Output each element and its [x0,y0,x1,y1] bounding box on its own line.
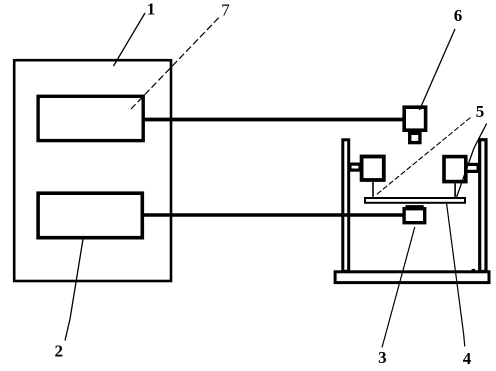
left slide box 5 [362,157,384,181]
leader line for 3 [382,227,415,348]
svg-text:1: 1 [147,0,156,19]
svg-text:3: 3 [378,348,387,367]
inner box 7 [38,96,143,140]
left post [343,140,349,271]
left link bracket [350,164,360,170]
right probe drop line [454,183,456,198]
svg-text:6: 6 [454,6,463,25]
leader line for 1 [114,13,146,66]
component 3 body [404,209,425,223]
svg-text:4: 4 [463,349,472,368]
leader line for 4 [447,204,465,347]
camera 6 lens square [410,133,420,142]
camera 6 body [404,107,425,130]
inner box 2 [38,193,142,238]
base [335,272,489,283]
svg-text:2: 2 [54,341,63,360]
component 3 cap [406,205,424,209]
leader line for 6 [420,29,456,110]
leader line for 5 right [456,124,487,199]
leader line for 2 [65,236,84,341]
platform 4 [365,198,465,203]
wire from box 7 to camera 6 [144,118,404,122]
leader line for 7 (dashed) [131,18,219,109]
right slide box 5 [444,157,466,182]
right link bracket [466,164,478,171]
box 1 (controller cabinet outline) [14,60,171,281]
left probe drop line [372,182,374,197]
ink speck on base [472,269,476,271]
right post [480,140,486,272]
leader line for 5 left (dashed) [376,118,471,196]
svg-text:7: 7 [221,1,230,20]
wire from box 2 to component 3 [143,213,405,217]
svg-text:5: 5 [476,102,485,121]
